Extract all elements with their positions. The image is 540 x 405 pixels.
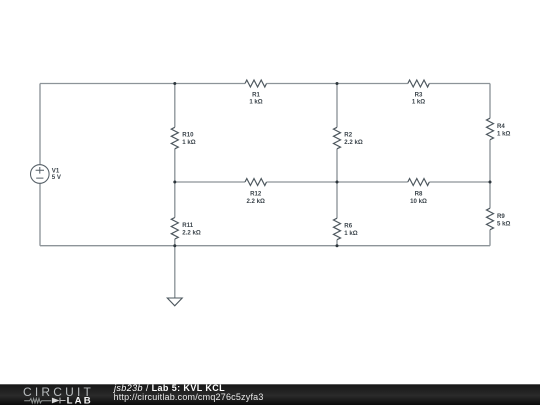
svg-text:R4: R4 <box>497 123 505 130</box>
svg-text:R3: R3 <box>415 91 423 98</box>
svg-text:R10: R10 <box>182 132 194 139</box>
svg-text:10 kΩ: 10 kΩ <box>410 198 427 205</box>
svg-text:1 kΩ: 1 kΩ <box>497 130 510 137</box>
node top x3 <box>336 82 339 85</box>
resistor R8 <box>408 179 430 205</box>
node top x2 <box>173 82 176 85</box>
resistor R6 <box>334 218 358 240</box>
wire middle net <box>175 181 490 183</box>
CircuitLab logo <box>23 385 94 405</box>
ground <box>167 298 182 306</box>
svg-text:1 kΩ: 1 kΩ <box>249 99 262 106</box>
wire ground stem <box>174 246 176 298</box>
svg-text:R11: R11 <box>182 222 193 229</box>
node bottom x3 <box>336 244 339 247</box>
resistor R4 <box>487 118 511 140</box>
resistor R12 <box>245 179 267 205</box>
svg-text:5 kΩ: 5 kΩ <box>497 220 510 227</box>
svg-text:R6: R6 <box>344 222 352 229</box>
node mid x3 <box>336 181 339 184</box>
resistor R2 <box>334 127 363 149</box>
svg-text:5 V: 5 V <box>52 174 62 181</box>
resistor R10 <box>171 127 195 149</box>
node mid x2 <box>173 181 176 184</box>
svg-text:R1: R1 <box>252 91 260 98</box>
wire left branch V1 <box>39 84 41 246</box>
node bottom x2 <box>173 244 176 247</box>
svg-text:2.2 kΩ: 2.2 kΩ <box>344 139 363 146</box>
resistor R11 <box>171 218 201 240</box>
svg-text:R12: R12 <box>250 190 262 197</box>
svg-text:1 kΩ: 1 kΩ <box>412 99 425 106</box>
svg-text:LAB: LAB <box>67 396 93 405</box>
svg-text:2.2 kΩ: 2.2 kΩ <box>246 198 265 205</box>
wire branch x2 <box>174 84 176 246</box>
svg-text:R9: R9 <box>497 213 505 220</box>
svg-text:2.2 kΩ: 2.2 kΩ <box>182 229 201 236</box>
svg-text:R8: R8 <box>415 190 423 197</box>
wire bottom net <box>40 245 490 247</box>
wire branch x3 <box>336 84 338 246</box>
wire branch x4 <box>489 84 491 246</box>
svg-text:1 kΩ: 1 kΩ <box>182 139 195 146</box>
resistor R9 <box>487 208 511 230</box>
node mid x4 <box>489 181 492 184</box>
voltage source V1 <box>31 165 62 184</box>
resistor R1 <box>245 80 267 106</box>
svg-text:1 kΩ: 1 kΩ <box>344 230 357 237</box>
wire top net <box>40 83 490 85</box>
resistor R3 <box>408 80 430 106</box>
svg-text:http://circuitlab.com/cmq276c5: http://circuitlab.com/cmq276c5zyfa3 <box>114 392 264 402</box>
svg-text:R2: R2 <box>344 132 352 139</box>
